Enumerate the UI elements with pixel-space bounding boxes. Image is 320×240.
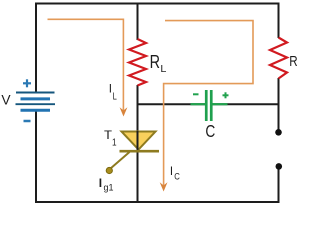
wire left edge lower bbox=[35, 110, 37, 203]
svg-text:g1: g1 bbox=[104, 183, 114, 194]
wire middle branch between RL and thyristor bbox=[137, 85, 139, 131]
current path IL (orange) bbox=[48, 19, 124, 112]
resistor R bbox=[270, 38, 287, 79]
battery minus sign bbox=[24, 120, 31, 123]
battery V plate4 bbox=[21, 109, 51, 112]
capacitor C right plate bbox=[210, 90, 213, 121]
svg-text:C: C bbox=[174, 171, 180, 181]
svg-text:R: R bbox=[150, 51, 160, 72]
wire capacitor row left bbox=[138, 103, 206, 105]
arrowhead IL bbox=[120, 107, 128, 116]
battery plus sign bbox=[23, 79, 31, 87]
battery V plate1 bbox=[16, 92, 55, 94]
wire left edge upper bbox=[35, 3, 37, 93]
wire capacitor row right bbox=[212, 103, 278, 105]
thyristor gate dot bbox=[106, 167, 112, 173]
capacitor minus sign bbox=[193, 93, 199, 95]
svg-text:L: L bbox=[113, 91, 118, 102]
thyristor cathode bar bbox=[120, 150, 160, 153]
thyristor T1 triangle bbox=[122, 132, 156, 150]
node terminal upper bbox=[275, 129, 282, 136]
svg-text:1: 1 bbox=[112, 138, 117, 149]
svg-text:I: I bbox=[99, 176, 102, 190]
capacitor plus sign bbox=[223, 92, 229, 98]
battery V plate2 bbox=[21, 97, 51, 100]
thyristor gate lead bbox=[111, 152, 130, 169]
svg-text:L: L bbox=[160, 64, 166, 75]
wire middle branch upper bbox=[137, 3, 139, 41]
wire top edge bbox=[35, 3, 280, 5]
arrowhead IC bbox=[160, 182, 168, 191]
wire through thyristor bbox=[137, 131, 139, 203]
battery V plate3 bbox=[16, 103, 56, 105]
wire right edge lower bbox=[278, 167, 280, 203]
svg-text:R: R bbox=[289, 54, 297, 70]
wire right edge middle bbox=[278, 78, 280, 130]
svg-text:V: V bbox=[1, 93, 11, 108]
wire bottom edge bbox=[35, 201, 280, 203]
current path IC (orange) bbox=[164, 21, 253, 188]
wire right edge upper bbox=[278, 3, 280, 39]
capacitor C green lead left bbox=[191, 103, 206, 105]
svg-text:T: T bbox=[104, 129, 112, 142]
node terminal lower bbox=[276, 163, 283, 170]
svg-text:C: C bbox=[205, 121, 215, 141]
capacitor C left plate bbox=[205, 90, 208, 121]
svg-text:I: I bbox=[109, 83, 112, 96]
capacitor C green lead right bbox=[212, 103, 227, 105]
svg-text:I: I bbox=[170, 166, 173, 178]
resistor RL bbox=[129, 39, 146, 86]
